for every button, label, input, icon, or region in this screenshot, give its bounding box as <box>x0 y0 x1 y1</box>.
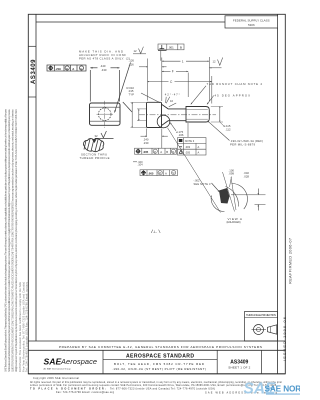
threaded end outline <box>186 107 209 123</box>
svg-text:.005: .005 <box>148 171 154 175</box>
svg-text:TYP: TYP <box>129 92 135 96</box>
svg-text:FEDERAL SUPPLY CLASS: FEDERAL SUPPLY CLASS <box>233 18 270 22</box>
10 deg tick <box>169 103 176 107</box>
svg-text:B: B <box>180 46 182 50</box>
svg-text:SHEET 1 OF 2: SHEET 1 OF 2 <box>228 366 250 370</box>
svg-text:THREAD PROFILE: THREAD PROFILE <box>80 156 110 160</box>
divider logo cell <box>102 350 104 374</box>
hidden hole circle in top view <box>98 108 111 121</box>
extension line head left <box>147 59 149 101</box>
svg-text:NOTE 3: NOTE 3 <box>185 139 195 143</box>
note leader to top view hole <box>115 63 131 113</box>
svg-text:32: 32 <box>95 134 99 138</box>
bolt: head front view <box>147 102 162 127</box>
svg-text:A: A <box>165 171 167 175</box>
svg-text:42°-47°: 42°-47° <box>165 93 180 97</box>
section thru thread profile blob <box>83 139 103 152</box>
radiating line 2 <box>231 177 236 210</box>
projection symbol circles <box>254 325 264 335</box>
extension line thread mid <box>187 73 189 98</box>
svg-text:THIRD ANGLE PROJECTION: THIRD ANGLE PROJECTION <box>246 313 276 317</box>
svg-text:12: 12 <box>213 60 217 64</box>
divider title cell <box>216 350 218 374</box>
inner arc <box>226 187 239 207</box>
leader from fillet to VIEW A <box>168 128 221 213</box>
centerline <box>139 114 216 116</box>
thread minor-dia lines <box>187 108 208 110</box>
left margin disclaimer text block A (rotated) <box>3 109 18 372</box>
extension line overall end <box>211 76 213 104</box>
projection symbol frustum <box>268 325 277 334</box>
L dim line <box>162 60 181 62</box>
detail indicator circle on fillet <box>157 115 170 128</box>
svg-text:Tel: 877-606-7323 (inside USA: Tel: 877-606-7323 (inside USA and Canada… <box>110 388 215 391</box>
svg-text:ISSUED 1998-06: ISSUED 1998-06 <box>282 317 287 361</box>
inner right border line <box>277 14 279 374</box>
svg-text:A: A <box>160 150 162 154</box>
FCF A cell texts <box>48 66 53 71</box>
FCF stack (3 rows) right <box>178 138 207 155</box>
svg-text:QUESTIONS REGARDING THIS DOCUM: QUESTIONS REGARDING THIS DOCUMENT: (724)… <box>10 109 14 372</box>
lower-left arc of view A <box>211 196 224 212</box>
SAE NORM watermark <box>244 381 309 398</box>
thd runout leader <box>191 86 206 105</box>
FCF stack rows <box>179 139 183 142</box>
svg-text:-L-: -L- <box>153 230 157 234</box>
dim leader from .100 <box>230 177 232 188</box>
title block bottom line <box>28 373 285 375</box>
third angle projection box <box>245 312 278 342</box>
left margin text block B (rotated, lower) <box>18 281 29 372</box>
vertical dim at right <box>257 189 259 195</box>
FCF2 cells <box>141 170 146 175</box>
svg-text:M: M <box>154 151 156 154</box>
svg-text:.230: .230 <box>143 141 149 145</box>
VIEW A detail geometry <box>211 172 265 212</box>
federal supply class box <box>225 16 278 28</box>
svg-text:.430: .430 <box>101 68 107 72</box>
bolt neck transition bottom <box>162 121 187 126</box>
horizontal ref line lower <box>255 204 266 206</box>
fillet wedge (dark) <box>219 188 230 204</box>
42-47 deg V leader <box>166 97 170 103</box>
svg-text:SAE reviews each technical rep: SAE reviews each technical report at lea… <box>7 109 11 372</box>
inner top border line <box>36 21 225 23</box>
svg-text:BOLT, TEE HEAD, FMS 5382 CR-TY: BOLT, TEE HEAD, FMS 5382 CR-TYPE RED <box>114 362 204 366</box>
thread callout leader <box>208 121 230 141</box>
surface finish symbol near head <box>139 47 144 54</box>
svg-text:AS3409: AS3409 <box>31 59 37 84</box>
svg-text:.005: .005 <box>185 151 191 155</box>
svg-text:SAE Technical Standards Board: SAE Technical Standards Board Rules prov… <box>3 109 7 372</box>
sidebar cell divider 1 <box>28 45 36 47</box>
datum FCF A (position frame) leader box top-left <box>47 65 86 71</box>
svg-text:12: 12 <box>134 49 138 53</box>
svg-text:F: F <box>172 70 174 74</box>
head height dim (outer) <box>131 102 133 127</box>
svg-text:M: M <box>66 68 68 71</box>
svg-text:.005: .005 <box>143 150 149 154</box>
svg-text:A: A <box>198 145 200 149</box>
svg-text:Fax: 724-776-0790 Email: cust: Fax: 724-776-0790 Email: custsvc@sae.org <box>56 391 115 394</box>
svg-text:.112: .112 <box>225 127 231 131</box>
svg-text:5306: 5306 <box>248 23 255 27</box>
svg-text:THD RUNOUT CHAM NOTE 2: THD RUNOUT CHAM NOTE 2 <box>207 82 263 86</box>
svg-text:10: 10 <box>170 99 174 103</box>
svg-text:.190-32, UNJF-3A (ST REST) PL/: .190-32, UNJF-3A (ST REST) PL/PT (RE RES… <box>112 367 206 371</box>
head top view <box>90 103 121 125</box>
svg-text:.001: .001 <box>168 46 174 50</box>
svg-text:PER MIL-S-8879: PER MIL-S-8879 <box>230 142 255 146</box>
title block top line <box>28 340 285 342</box>
extension line thread end <box>208 57 210 101</box>
svg-text:PER AS 478 CLASS A ONLY. (2): PER AS 478 CLASS A ONLY. (2) <box>79 56 130 60</box>
svg-text:PREPARED BY SAE COMMITTEE E-32: PREPARED BY SAE COMMITTEE E-32, GENERAL … <box>59 345 262 349</box>
surface finish 32 below top view <box>101 131 106 138</box>
FCF position frame 2 <box>140 170 178 176</box>
radiating line 1 <box>223 172 235 212</box>
divider AS cell <box>261 350 263 374</box>
dim .440/.430 line over top view <box>90 67 97 69</box>
svg-text:SAE NORM: SAE NORM <box>265 385 301 394</box>
svg-text:L: L <box>182 59 184 63</box>
thread dia dim vertical <box>219 107 221 123</box>
45 deg approx leader <box>207 96 214 105</box>
svg-text:.104: .104 <box>138 163 144 167</box>
shank dia dim (inner) <box>138 109 140 121</box>
FCF position frame 1 <box>135 148 177 154</box>
svg-text:M: M <box>172 172 174 175</box>
svg-text:.003: .003 <box>185 145 191 149</box>
FCF perpendicularity frame above <box>158 44 184 50</box>
svg-text:.219: .219 <box>55 67 61 71</box>
head width dim arrows <box>139 66 148 68</box>
svg-text:.116: .116 <box>129 63 135 67</box>
extension below thread start <box>187 123 189 137</box>
svg-text:AEROSPACE STANDARD: AEROSPACE STANDARD <box>126 353 194 359</box>
svg-text:Aerospace: Aerospace <box>60 357 97 366</box>
svg-text:.099: .099 <box>229 172 235 176</box>
svg-text:B: B <box>166 150 168 154</box>
outer page frame <box>28 14 285 374</box>
FCF boxes below bolt <box>133 138 206 176</box>
svg-text:(ENLARGED): (ENLARGED) <box>227 221 241 224</box>
svg-text:An SAE International Group: An SAE International Group <box>44 368 72 371</box>
thread-end finish symbol 12 <box>218 58 223 66</box>
sidebar cell divider 2 <box>28 96 36 98</box>
FCF perp cells <box>160 45 165 49</box>
svg-text:RATIONALE: This document has b: RATIONALE: This document has been reaffi… <box>18 282 22 372</box>
svg-text:M: M <box>80 68 82 71</box>
svg-text:Copyright 2006 SAE Internation: Copyright 2006 SAE International <box>33 377 79 380</box>
svg-text:VIEW A: VIEW A <box>228 217 243 221</box>
svg-text:.028: .028 <box>244 174 250 178</box>
C dim line <box>148 81 169 83</box>
svg-text:45 DEG APPROX: 45 DEG APPROX <box>215 94 251 98</box>
F dim line <box>162 70 171 72</box>
head bottom dim .240/.230 <box>146 129 148 138</box>
leader into wedge <box>212 183 220 192</box>
svg-text:M: M <box>172 151 174 154</box>
svg-text:A: A <box>198 151 200 155</box>
short leader near top view right edge <box>123 102 132 112</box>
svg-text:.166: .166 <box>178 133 184 137</box>
svg-text:A: A <box>72 67 74 71</box>
horizontal ref line upper <box>231 194 266 196</box>
R leader to head corner <box>141 93 160 103</box>
line under AEROSPACE STANDARD <box>103 359 217 361</box>
datum -L- <box>151 230 160 234</box>
dia .175 leader <box>170 123 176 131</box>
svg-text:All rights reserved. No part o: All rights reserved. No part of this pub… <box>14 109 18 372</box>
svg-text:REAFFIRMED 2006-07: REAFFIRMED 2006-07 <box>287 238 292 284</box>
svg-text:M: M <box>159 172 161 175</box>
prepared row bottom line <box>28 349 285 351</box>
svg-text:SEE NOTE 3: SEE NOTE 3 <box>194 182 212 186</box>
sidebar right line <box>35 14 37 341</box>
outer arc <box>232 183 248 209</box>
bolt neck transition top <box>162 104 187 109</box>
svg-text:SAE: SAE <box>44 356 62 366</box>
extension line head right <box>161 58 163 102</box>
FCF1 cells <box>136 149 141 154</box>
